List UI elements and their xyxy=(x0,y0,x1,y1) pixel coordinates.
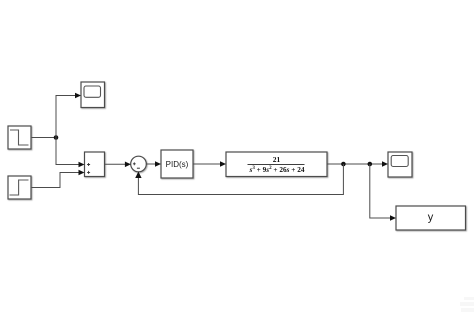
wire junction down to add input 1 xyxy=(56,138,79,165)
faint watermark bottom right xyxy=(460,297,474,312)
sum junction circle xyxy=(131,156,147,172)
junction node feedback xyxy=(341,162,346,167)
wire step1 to junction xyxy=(32,137,56,139)
plus sign input 1 xyxy=(87,163,90,166)
arrowhead into add input 2 xyxy=(79,170,85,176)
svg-text:PID(s): PID(s) xyxy=(166,160,189,169)
wire transfer function to scope2 xyxy=(327,163,383,165)
wire junction up to scope1 xyxy=(56,96,76,138)
arrowhead into PID xyxy=(155,161,161,167)
PID controller block xyxy=(161,150,193,178)
wire branch down to y block xyxy=(370,164,391,218)
fraction bar xyxy=(248,163,305,165)
feedback wire down-left-up to sum circle xyxy=(138,164,343,195)
plus sign input 2 xyxy=(87,171,90,174)
transfer function block xyxy=(226,152,327,177)
step-up icon xyxy=(10,180,29,195)
arrowhead up into sum circle xyxy=(135,172,141,179)
arrowhead into y block xyxy=(390,215,396,221)
to-workspace block y xyxy=(396,206,466,230)
plus sign (left input) xyxy=(133,162,136,165)
scope block Scope1 xyxy=(81,82,105,108)
minus sign (bottom input) xyxy=(137,167,140,169)
scope block Scope2 xyxy=(388,152,412,177)
wire PID to transfer function xyxy=(193,163,221,165)
scope2 screen xyxy=(391,156,408,167)
sum block Add (rectangular, ++) xyxy=(85,152,105,177)
arrowhead into scope2 xyxy=(382,161,388,167)
step source block Step2 (step up) xyxy=(8,176,31,199)
arrowhead into add input 1 xyxy=(79,162,85,168)
svg-text:21: 21 xyxy=(273,155,281,164)
wire add to sum circle xyxy=(105,163,126,165)
svg-text:s3 + 9s2 + 26s + 24: s3 + 9s2 + 26s + 24 xyxy=(249,165,305,174)
wire step2 to add input 2 xyxy=(32,173,79,188)
svg-text:y: y xyxy=(428,212,434,224)
step source block Step1 (step down) xyxy=(8,126,31,149)
wire sum to PID xyxy=(146,163,156,165)
step-down icon xyxy=(10,130,29,145)
junction node to y branch xyxy=(368,162,373,167)
scope1 screen xyxy=(84,86,101,97)
arrowhead into scope1 xyxy=(75,93,81,99)
junction node dot xyxy=(54,135,59,140)
arrowhead into transfer function xyxy=(220,161,226,167)
arrowhead into sum circle xyxy=(125,162,131,168)
